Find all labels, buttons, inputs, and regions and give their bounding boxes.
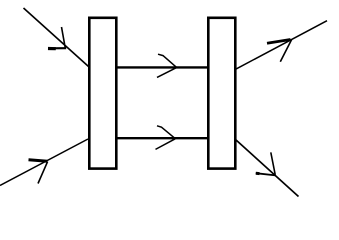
arrowhead on lower propagator <box>156 126 176 150</box>
left vertex box <box>89 18 116 169</box>
right vertex box <box>208 18 235 169</box>
wire: upper propagator between boxes <box>116 66 209 68</box>
wire: outgoing top-right leg <box>236 21 328 70</box>
wire: incoming bottom-left leg <box>0 139 88 186</box>
wire: incoming top-left leg <box>24 8 89 67</box>
arrowhead on bottom-left leg <box>29 160 48 184</box>
wire: outgoing bottom-right leg <box>236 140 299 197</box>
arrowhead on bottom-right leg <box>256 152 276 175</box>
arrowhead on top-right leg <box>267 40 292 62</box>
arrowhead on top-left leg <box>48 27 66 49</box>
arrowhead on upper propagator <box>157 54 177 77</box>
wire: lower propagator between boxes <box>116 137 209 139</box>
